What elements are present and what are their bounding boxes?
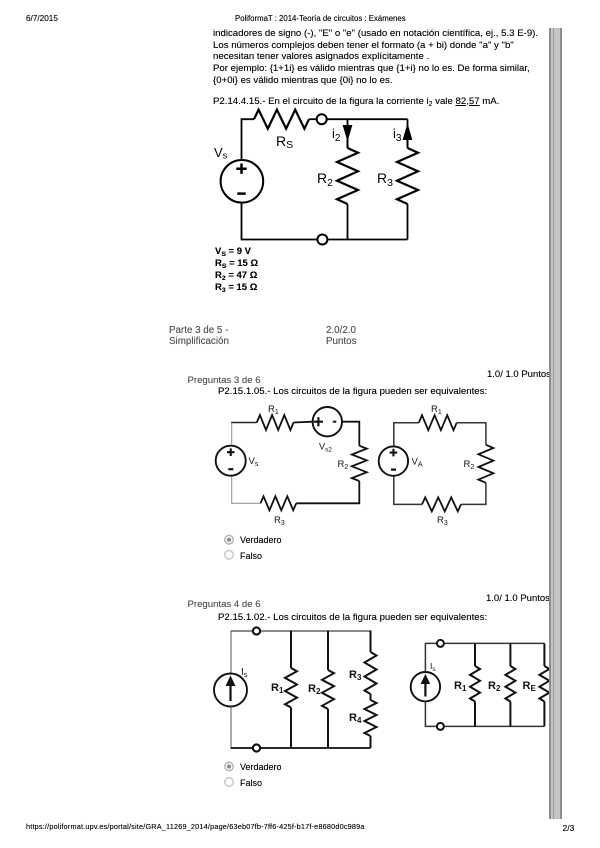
label R1 (Q4 right) <box>454 680 467 693</box>
wire: R2 branch (Q4 right) <box>509 643 511 726</box>
radio button verdadero (Q4, selected) <box>225 762 234 771</box>
label R2 (Q4 left) <box>308 683 321 696</box>
node: open terminal top <box>317 114 327 124</box>
paragraph <box>213 28 538 39</box>
radio button falso (Q3) <box>225 551 234 560</box>
wire: Vs2 to right corner <box>342 422 359 446</box>
label R2 (Q4 right) <box>488 680 501 693</box>
radio verdadero q3 <box>240 535 282 545</box>
resistor R1 (Q4 left) <box>285 668 297 708</box>
label IS (Q4 left) <box>241 667 248 679</box>
voltage source VS2 <box>313 407 342 436</box>
current arrow i2 (down) <box>343 124 351 148</box>
wire: Q4 right top rail <box>425 643 544 672</box>
wire: Q4 left top rail <box>231 631 371 674</box>
label R1 (Q3 left) <box>268 404 279 416</box>
header title <box>235 14 406 23</box>
resistor R3 (Q4 left) <box>365 652 377 694</box>
wire: R1 to top right corner down <box>457 423 486 445</box>
label VA (Q3 right) <box>412 457 423 469</box>
resistor R2 <box>337 148 358 204</box>
wire: Q3 left circuit left vertical top <box>231 423 257 446</box>
svg-text:R1: R1 <box>454 680 467 693</box>
resistor RE (Q4 right) <box>539 666 549 702</box>
wire: Q4 right bottom rail <box>425 701 544 726</box>
resistor R2 (Q4 right) <box>505 666 515 702</box>
resistor RS <box>254 110 309 129</box>
svg-text:R3: R3 <box>349 669 362 682</box>
wire: R4 to bottom rail <box>370 736 372 748</box>
label R1 (Q3 right) <box>431 404 442 416</box>
part header <box>169 325 228 336</box>
radio verdadero q4 <box>240 762 282 772</box>
svg-text:R2: R2 <box>488 680 501 693</box>
footer page <box>563 823 575 833</box>
radio button verdadero (Q3, selected) <box>225 535 234 544</box>
wire: R2 down to bottom right corner <box>296 481 359 503</box>
label i3 <box>393 126 402 144</box>
footer url <box>26 822 365 831</box>
label R3 (Q4 left) <box>349 669 362 682</box>
svg-text:RE: RE <box>523 680 537 693</box>
label i2 <box>332 126 341 144</box>
svg-text:Is: Is <box>241 667 248 679</box>
label VS <box>214 145 228 162</box>
resistor R2 (Q3 right) <box>478 445 493 483</box>
values list <box>215 246 251 257</box>
label R3 <box>377 170 393 189</box>
node: open terminal bottom <box>317 235 327 245</box>
wire: between R3 and R4 <box>370 694 372 700</box>
svg-text:R4: R4 <box>349 712 362 725</box>
resistor R3 <box>397 148 418 204</box>
label R2 (Q3 left) <box>338 459 349 471</box>
current arrow i3 (up) <box>403 125 411 148</box>
wire: bottom left from Vs <box>242 203 318 240</box>
current source IS (Q4 left) <box>214 674 247 707</box>
wire: R1 to Vs2 <box>294 421 313 424</box>
wire: R2 to bottom right corner <box>461 483 486 505</box>
node: open terminal top (Q4 right) <box>437 640 444 647</box>
scrollbar <box>549 28 562 819</box>
label R4 (Q4 left) <box>349 712 362 725</box>
label IS (Q4 right) <box>430 661 436 673</box>
label R1 (Q4 left) <box>271 682 284 695</box>
label VS2 <box>319 442 332 454</box>
wire: R2 branch top segment <box>347 119 349 148</box>
question 4 header <box>188 599 261 610</box>
wire: top left from Vs to Rs <box>242 119 255 160</box>
resistor R1 (Q4 right) <box>470 666 480 702</box>
wire: Q4 left bottom rail <box>231 707 371 749</box>
wire: bottom left corner to R3 <box>232 476 261 504</box>
radio button falso (Q4) <box>225 778 234 787</box>
label RE (Q4 right) <box>523 680 537 693</box>
header date <box>26 14 58 23</box>
wire: R3 branch bottom <box>407 204 409 240</box>
wire: top right from node to R3 branch <box>326 118 407 120</box>
wire: R2 branch (Q4 left) <box>327 631 329 749</box>
node: open terminal bottom (Q4 right) <box>437 723 444 730</box>
wire: R3/R4 branch top (Q4 left) <box>370 631 372 653</box>
resistor R1 (Q3 right) <box>419 415 457 430</box>
voltage source VS <box>221 160 264 203</box>
resistor R3 (Q3 right) <box>422 497 461 511</box>
wire: RE branch (Q4 right) <box>543 643 545 726</box>
voltage source VS (Q3 left) <box>216 446 246 476</box>
svg-text:Is: Is <box>430 661 436 673</box>
wire: Q3 right circuit left vertical top <box>394 423 419 447</box>
wire: R1 branch (Q4 right) <box>474 643 476 726</box>
svg-text:R1: R1 <box>271 682 284 695</box>
label R3 (Q3 right) <box>437 515 448 527</box>
wire: R1 branch (Q4 left) <box>290 631 292 749</box>
label VS (Q3 left) <box>249 456 259 468</box>
label R3 (Q3 left) <box>274 515 285 527</box>
svg-text:R2: R2 <box>308 683 321 696</box>
current source IS (Q4 right) <box>411 672 440 701</box>
label R2 (Q3 right) <box>464 459 475 471</box>
node: open terminal top (Q4 left) <box>253 627 260 634</box>
wire: bottom left corner to R3 (Q3 right) <box>394 476 422 505</box>
resistor R2 (Q4 left) <box>322 670 334 709</box>
wire: R2 branch bottom <box>347 204 349 240</box>
question 3 header <box>188 375 261 386</box>
resistor R4 (Q4 left) <box>365 700 377 736</box>
label RS <box>276 133 293 151</box>
wire: R3 branch top segment <box>407 119 409 148</box>
resistor R1 (Q3 left) <box>257 415 294 430</box>
wire: Rs to node <box>309 118 317 120</box>
wire: bottom right <box>327 239 407 241</box>
resistor R2 (Q3 left) <box>352 446 367 481</box>
node: open terminal bottom (Q4 left) <box>253 744 260 751</box>
question P2.14.4.15 <box>213 96 499 107</box>
voltage source VA (Q3 right) <box>379 446 408 475</box>
label R2 <box>317 170 333 189</box>
resistor R3 (Q3 left) <box>261 496 297 510</box>
